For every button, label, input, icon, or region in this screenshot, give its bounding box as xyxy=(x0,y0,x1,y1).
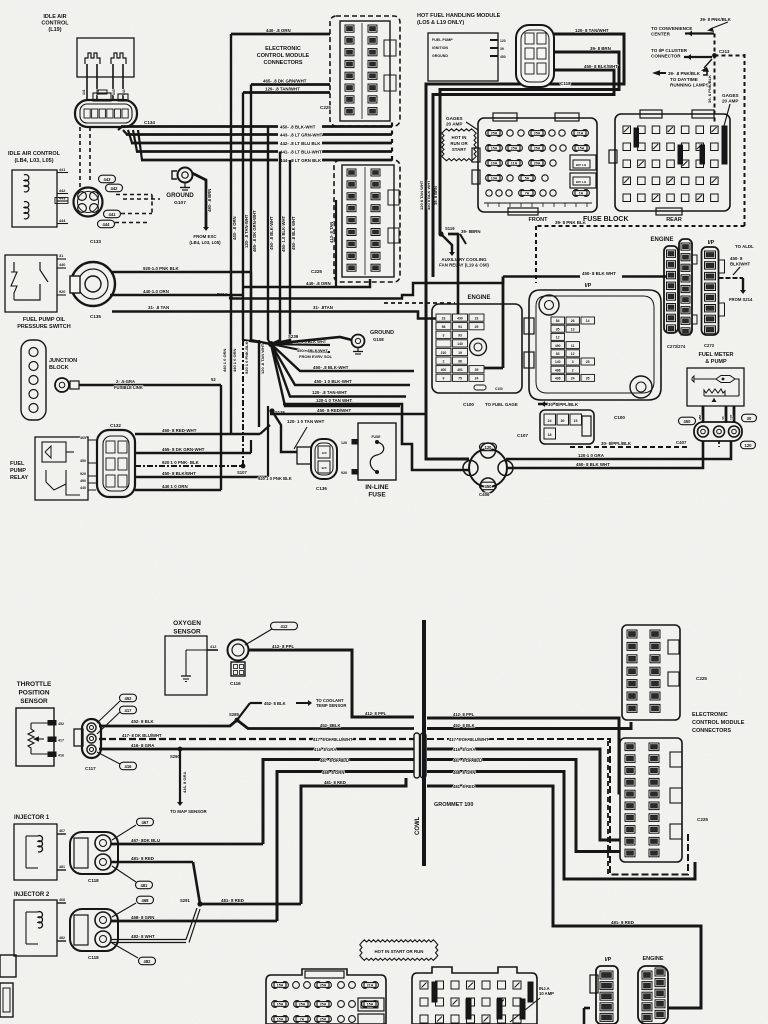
svg-text:(LO5 & L19 ONLY): (LO5 & L19 ONLY) xyxy=(417,20,464,26)
svg-text:39- 8BRN: 39- 8BRN xyxy=(461,229,481,234)
svg-text:417- 8 DK BLU/WHT: 417- 8 DK BLU/WHT xyxy=(122,733,162,738)
wire 452-.8 BLK right xyxy=(237,720,414,729)
svg-text:C132: C132 xyxy=(110,423,121,428)
ECM connector C225 second dashed boundary xyxy=(334,160,400,282)
svg-text:417: 417 xyxy=(125,708,133,713)
connector C135 xyxy=(71,262,115,306)
svg-text:440: 440 xyxy=(80,486,86,490)
svg-text:11A: 11A xyxy=(511,162,518,166)
wire 440-1.0 ORN vertical lower xyxy=(220,385,222,490)
connector ENGINE bottom xyxy=(638,966,668,1024)
svg-text:442: 442 xyxy=(59,189,65,193)
svg-text:START: START xyxy=(452,147,467,152)
svg-text:31- .8TAN: 31- .8TAN xyxy=(313,305,333,310)
wire 440-.8 ORN top run to C225 xyxy=(231,33,330,36)
svg-text:465- 8 DK GRN-WHT: 465- 8 DK GRN-WHT xyxy=(162,447,205,452)
wire 441- .8 LT BLU-WHT xyxy=(133,130,137,152)
pin tag 417 xyxy=(120,706,137,714)
svg-text:440 1 0 ORN: 440 1 0 ORN xyxy=(162,484,188,489)
svg-text:452- 8 BLK: 452- 8 BLK xyxy=(131,719,155,724)
splice B114 xyxy=(229,296,233,300)
svg-text:120: 120 xyxy=(500,39,506,43)
svg-text:C118: C118 xyxy=(560,81,571,86)
svg-text:84: 84 xyxy=(556,319,560,323)
svg-text:450- 8 BLK/WHT: 450- 8 BLK/WHT xyxy=(162,471,196,476)
pin tag 120 C406 xyxy=(480,443,497,451)
wire 120-1.0 TAN WHT upper xyxy=(283,404,469,470)
svg-text:450- 8 RED-WHT: 450- 8 RED-WHT xyxy=(162,428,197,433)
wire 413-.8 TAN xyxy=(335,200,337,287)
ring terminal on junction block xyxy=(55,378,69,392)
svg-text:39- 8 PNK/BLK: 39- 8 PNK/BLK xyxy=(700,17,732,22)
pin tag 412 O2 box xyxy=(207,649,218,651)
svg-text:GAGES: GAGES xyxy=(446,116,463,121)
wire 467-.8 DK BLU right xyxy=(427,760,620,852)
svg-text:GROMMET 100: GROMMET 100 xyxy=(434,802,473,808)
svg-text:30- 8/PPL/BLK: 30- 8/PPL/BLK xyxy=(548,402,579,407)
svg-text:S289: S289 xyxy=(229,712,239,717)
wire 120-1.0 GRA xyxy=(506,441,731,459)
svg-text:468- 8 GRN: 468- 8 GRN xyxy=(131,915,154,920)
svg-text:GROUND: GROUND xyxy=(432,54,448,58)
wire 465-.8 DK GRN-WHT relay xyxy=(135,452,251,454)
svg-text:450: 450 xyxy=(500,55,506,59)
svg-text:FUEL PUMP: FUEL PUMP xyxy=(432,38,453,42)
fuel pump relay box xyxy=(35,437,88,500)
splice S291 xyxy=(197,901,202,906)
svg-text:C225: C225 xyxy=(311,269,322,274)
svg-text:INJECTOR 1: INJECTOR 1 xyxy=(14,815,50,821)
connector C273/274 engine strip B xyxy=(679,239,692,335)
svg-text:120-1 0 GRA: 120-1 0 GRA xyxy=(578,453,605,458)
svg-text:140: 140 xyxy=(457,342,463,346)
fuse row 4 xyxy=(486,175,503,182)
wire 39-.8 BRN at S119 xyxy=(448,233,458,235)
svg-text:7A: 7A xyxy=(525,192,530,196)
oxygen sensor internal ground xyxy=(185,650,187,676)
svg-text:25A: 25A xyxy=(511,147,518,151)
svg-text:5A: 5A xyxy=(525,177,530,181)
svg-text:I/P: I/P xyxy=(605,957,612,963)
svg-text:440- .8 ORN: 440- .8 ORN xyxy=(306,281,331,286)
wire 468-.8 GRN right xyxy=(427,772,695,880)
connector C406 xyxy=(469,449,507,487)
svg-text:GAGES: GAGES xyxy=(722,93,739,98)
pins 441/442/443/444 on LB4 box xyxy=(57,172,68,174)
TPS pins xyxy=(31,722,48,724)
cowl line xyxy=(422,620,426,866)
connector C118 injector 2 xyxy=(70,909,118,951)
svg-text:11: 11 xyxy=(571,344,575,348)
svg-text:120- .8 TAN-WHT: 120- .8 TAN-WHT xyxy=(312,390,347,395)
svg-text:C118: C118 xyxy=(88,955,99,960)
svg-text:450: 450 xyxy=(485,484,493,489)
svg-text:3: 3 xyxy=(572,360,574,364)
svg-text:120: 120 xyxy=(485,445,493,450)
svg-text:SENSOR: SENSOR xyxy=(20,698,48,705)
svg-text:S119: S119 xyxy=(445,226,455,231)
svg-text:468- 8 GRN: 468- 8 GRN xyxy=(453,770,475,775)
svg-text:450- .8 BLK-WHT: 450- .8 BLK-WHT xyxy=(269,216,274,250)
svg-text:3: 3 xyxy=(443,334,445,338)
wire 920-1.0 PNK-BLK vertical lower xyxy=(242,340,244,466)
svg-text:417- 8 DK BLU/WHT: 417- 8 DK BLU/WHT xyxy=(449,737,489,742)
svg-text:TO FUEL GAGE: TO FUEL GAGE xyxy=(485,402,518,407)
svg-text:441: 441 xyxy=(82,89,86,95)
svg-text:452: 452 xyxy=(58,722,64,726)
svg-text:482- 8 WHT: 482- 8 WHT xyxy=(131,934,155,939)
svg-text:25A: 25A xyxy=(534,132,541,136)
svg-text:93: 93 xyxy=(458,325,462,329)
svg-text:15A: 15A xyxy=(277,1003,284,1007)
svg-text:450- 8 RED/WHT: 450- 8 RED/WHT xyxy=(317,408,351,413)
svg-text:120- .8 TAN/WHT: 120- .8 TAN/WHT xyxy=(265,87,300,92)
pin tag 442 xyxy=(106,184,123,192)
svg-text:ENGINE: ENGINE xyxy=(642,956,663,962)
wire 450-.8 BLK/WHT module xyxy=(433,70,614,277)
svg-text:25A: 25A xyxy=(299,1003,306,1007)
bottom fuse block front outline xyxy=(266,969,386,1024)
splice S239 xyxy=(268,341,274,347)
svg-text:THROTTLE: THROTTLE xyxy=(17,681,52,688)
svg-text:CENTER: CENTER xyxy=(651,32,671,37)
svg-text:FUSIBLE LINK: FUSIBLE LINK xyxy=(114,385,143,390)
I/P C100 circle top left xyxy=(539,295,559,315)
svg-text:120: 120 xyxy=(341,441,347,445)
wire 482-.8 WHT injector double xyxy=(111,939,186,941)
svg-text:452- 8 BLK: 452- 8 BLK xyxy=(264,701,286,706)
hot in start or run zigzag xyxy=(360,940,438,961)
wire 440-.8 ORN vertical xyxy=(230,34,232,298)
svg-text:441- .8 LT BLU-WHT: 441- .8 LT BLU-WHT xyxy=(280,149,322,154)
relay box B in fuse block xyxy=(570,173,596,188)
ECM connector C225 upper bottom half xyxy=(622,625,680,720)
svg-text:C273/274: C273/274 xyxy=(667,344,686,349)
wire 450-.8 RED/WHT upper xyxy=(270,413,426,416)
svg-text:12: 12 xyxy=(556,336,560,340)
svg-text:FUSE BLOCK: FUSE BLOCK xyxy=(583,216,629,223)
rear fuse rows xyxy=(623,126,631,134)
bottom rear fuse rows xyxy=(420,981,428,989)
wire C407 dashed stub xyxy=(718,441,720,447)
svg-text:496: 496 xyxy=(555,368,561,372)
relay pins 465/450/920/490/440 xyxy=(88,439,96,441)
connector I/P bottom xyxy=(596,966,618,1024)
svg-text:FAN RELAY (L19 & C60): FAN RELAY (L19 & C60) xyxy=(439,263,489,268)
svg-text:PRESSURE SWITCH: PRESSURE SWITCH xyxy=(17,324,71,330)
splice S135 xyxy=(269,408,274,413)
svg-text:481- 8 RED: 481- 8 RED xyxy=(221,898,244,903)
pin tag 412 oval xyxy=(271,622,298,630)
pin tag 450 C407 xyxy=(679,417,696,425)
svg-text:120: 120 xyxy=(745,443,753,448)
svg-text:19: 19 xyxy=(458,351,462,355)
svg-text:441: 441 xyxy=(109,212,117,217)
svg-text:31: 31 xyxy=(59,254,63,258)
svg-text:30: 30 xyxy=(747,416,752,421)
svg-text:440 1 0 ORN: 440 1 0 ORN xyxy=(232,349,237,372)
fuel meter pins xyxy=(702,406,705,423)
wire 481-.8 RED injector xyxy=(111,861,193,864)
fuse block bottom ticks xyxy=(484,202,592,204)
svg-text:39: 39 xyxy=(475,368,479,372)
svg-text:RELAY: RELAY xyxy=(10,475,28,481)
svg-text:PUMP: PUMP xyxy=(10,468,26,474)
svg-text:35: 35 xyxy=(556,327,560,331)
svg-text:FUSE: FUSE xyxy=(368,492,386,499)
engine C100 bottom ovals xyxy=(474,385,486,390)
fuel pump oil pressure switch box xyxy=(5,255,57,312)
wire 120-.8 TAN-WHT to C225 xyxy=(243,91,330,94)
svg-text:416- 8 GRA: 416- 8 GRA xyxy=(131,743,155,748)
ground G108 ring terminal xyxy=(271,337,352,344)
svg-text:920: 920 xyxy=(341,471,347,475)
svg-text:467: 467 xyxy=(59,829,65,833)
svg-text:417- 8 DK BLU/WHT: 417- 8 DK BLU/WHT xyxy=(313,737,353,742)
svg-text:AUXILIARY COOLING: AUXILIARY COOLING xyxy=(441,257,487,262)
svg-text:24: 24 xyxy=(548,419,552,423)
svg-text:18: 18 xyxy=(548,433,552,437)
wire 920-1.0 PNK BLK xyxy=(112,271,251,273)
svg-text:CONTROL MODULE: CONTROL MODULE xyxy=(257,53,310,59)
svg-text:440 1 0 ORN: 440 1 0 ORN xyxy=(222,349,227,372)
wire I/P to S214 xyxy=(719,277,744,279)
svg-text:ENGINE: ENGINE xyxy=(650,237,673,243)
svg-text:TO CONVENIENCE: TO CONVENIENCE xyxy=(651,26,692,31)
svg-text:452- 8 BLK: 452- 8 BLK xyxy=(453,723,475,728)
svg-text:467: 467 xyxy=(142,820,150,825)
svg-text:481- 8 RED: 481- 8 RED xyxy=(453,784,475,789)
pin tag 416 xyxy=(120,762,137,770)
wire 412-.8 PPL xyxy=(248,650,414,717)
svg-text:450- .8 BLK-WHT: 450- .8 BLK-WHT xyxy=(280,124,316,129)
svg-text:C225: C225 xyxy=(696,676,707,681)
svg-text:SENSOR: SENSOR xyxy=(173,629,201,636)
pin tag 30 C407 xyxy=(742,414,757,422)
engine C100 grid xyxy=(436,314,451,321)
svg-text:468: 468 xyxy=(59,898,65,902)
label 39-.8 PNK/BLK daytime xyxy=(652,70,660,76)
bottom fuse block rear outline xyxy=(412,967,537,1024)
svg-text:GROUND: GROUND xyxy=(370,330,394,336)
svg-text:C225: C225 xyxy=(697,817,708,822)
grommet 100 xyxy=(414,733,420,778)
svg-text:FUEL: FUEL xyxy=(10,461,25,467)
svg-text:443: 443 xyxy=(104,177,112,182)
svg-text:920: 920 xyxy=(59,290,65,294)
svg-text:(L19): (L19) xyxy=(48,27,61,33)
svg-text:C100: C100 xyxy=(495,387,503,391)
svg-text:440-1.0 ORN: 440-1.0 ORN xyxy=(143,289,169,294)
svg-text:CONTROL: CONTROL xyxy=(41,21,69,27)
pin tag 450 C406 xyxy=(480,482,497,490)
wire to I/P cluster connector arrow xyxy=(684,56,712,58)
pin tag 482 oval xyxy=(139,957,156,965)
wire 450-.8 BLK-WHT vertical xyxy=(267,127,269,341)
svg-text:120 .8 TAN WHT: 120 .8 TAN WHT xyxy=(260,343,265,374)
svg-text:920 1 0 PNK BLK: 920 1 0 PNK BLK xyxy=(258,476,292,481)
connector C118 module xyxy=(516,25,554,87)
svg-text:412- 8 PPL: 412- 8 PPL xyxy=(365,711,387,716)
svg-text:481: 481 xyxy=(59,865,65,869)
ECM connector C225 lower body xyxy=(620,738,682,862)
svg-text:10 AMP: 10 AMP xyxy=(539,991,554,996)
svg-text:HOT FUEL HANDLING MODULE: HOT FUEL HANDLING MODULE xyxy=(417,13,501,19)
svg-text:IDLE AIR: IDLE AIR xyxy=(43,14,66,20)
svg-text:HOT IN: HOT IN xyxy=(452,135,467,140)
wire 440-1.0 ORN xyxy=(110,294,243,296)
svg-text:(LB4, L03, L05): (LB4, L03, L05) xyxy=(189,240,221,245)
pin tag 444 xyxy=(98,220,115,228)
pin tag 443 xyxy=(99,175,116,183)
wire 417-.8 DK BLU/WHT dashed xyxy=(99,738,414,740)
svg-text:481- 8 RED: 481- 8 RED xyxy=(131,856,154,861)
svg-text:416- 8 GRA: 416- 8 GRA xyxy=(182,772,187,793)
pin tag 120 C407 xyxy=(741,441,756,449)
svg-text:OXYGEN: OXYGEN xyxy=(173,620,201,627)
wire to convenience center arrow xyxy=(685,32,714,34)
svg-text:C107: C107 xyxy=(517,433,528,438)
svg-text:467- 8 DK BLU: 467- 8 DK BLU xyxy=(453,758,482,763)
svg-text:450- .8 BLK WHT: 450- .8 BLK WHT xyxy=(291,216,296,250)
svg-text:C213: C213 xyxy=(719,49,730,54)
bottom front fuses row 2 xyxy=(272,1001,289,1008)
svg-text:440: 440 xyxy=(59,263,65,267)
svg-text:412- 8 PPL: 412- 8 PPL xyxy=(272,644,295,649)
svg-text:POSITION: POSITION xyxy=(18,690,49,697)
arrows from S119 to aux cooling xyxy=(441,234,452,250)
wire 120-.8 TAN/WHT module xyxy=(426,34,624,459)
svg-text:450: 450 xyxy=(80,459,86,463)
svg-text:465- .8 DK GRN-WHT: 465- .8 DK GRN-WHT xyxy=(252,210,257,252)
wire vertical into engine connector xyxy=(502,277,505,369)
svg-text:450- 8 BLK/WHT: 450- 8 BLK/WHT xyxy=(584,64,618,69)
svg-text:24: 24 xyxy=(475,377,479,381)
svg-text:CONNECTORS: CONNECTORS xyxy=(692,728,731,734)
wire 481-.8 RED right xyxy=(427,786,701,1008)
svg-text:98: 98 xyxy=(442,325,446,329)
svg-text:15A: 15A xyxy=(277,1018,284,1022)
svg-text:444: 444 xyxy=(59,219,66,223)
oxygen sensor connector C116 xyxy=(228,640,249,661)
svg-text:2- .5-GRA: 2- .5-GRA xyxy=(116,379,135,384)
svg-text:9: 9 xyxy=(443,377,445,381)
svg-text:25A: 25A xyxy=(491,132,498,136)
svg-text:CONNECTOR: CONNECTOR xyxy=(651,54,681,59)
bottom front fuses row 3 xyxy=(272,1016,289,1023)
svg-text:482: 482 xyxy=(59,936,65,940)
svg-text:491: 491 xyxy=(457,368,463,372)
svg-text:IDLE AIR CONTROL: IDLE AIR CONTROL xyxy=(8,151,61,157)
svg-text:490: 490 xyxy=(80,479,86,483)
pin tag 468 oval xyxy=(137,896,154,904)
wire 120-.8 TAN-WHT fan xyxy=(271,344,406,397)
svg-text:14: 14 xyxy=(586,319,590,323)
wire 440-1.0 ORN from B114 xyxy=(231,277,503,299)
wire 450-1.0 BLK-WHT fan xyxy=(271,344,410,385)
coil L4 xyxy=(24,202,29,219)
svg-text:450- 1 0 BLK-WHT: 450- 1 0 BLK-WHT xyxy=(314,379,352,384)
svg-text:BDY 1-B: BDY 1-B xyxy=(576,180,586,184)
svg-text:C118: C118 xyxy=(88,878,99,883)
ECM connector C225 upper dashed boundary xyxy=(330,16,400,126)
svg-text:416: 416 xyxy=(125,764,133,769)
wire 440-1.0 ORN vertical lower 2 xyxy=(230,298,232,434)
svg-text:490: 490 xyxy=(555,344,561,348)
wire 450-.8 RED-WHT xyxy=(135,433,260,435)
svg-text:TO MAP SENSOR: TO MAP SENSOR xyxy=(170,809,208,814)
svg-text:443: 443 xyxy=(112,89,116,95)
splice S289 xyxy=(235,718,240,723)
wire 467-.8 DK BLU injector xyxy=(111,843,263,846)
wire 450-1.0 BLK-WHT vertical xyxy=(279,152,281,342)
svg-text:ELECTRONIC: ELECTRONIC xyxy=(265,46,301,52)
bottom rear black bars xyxy=(432,982,437,1002)
svg-text:G108: G108 xyxy=(373,337,384,342)
svg-text:I/P: I/P xyxy=(585,283,592,289)
connector C136 xyxy=(311,439,337,479)
label 120-1.0 TAN WHT pointer xyxy=(294,427,307,449)
svg-text:468: 468 xyxy=(142,898,150,903)
svg-text:21A: 21A xyxy=(577,132,584,136)
svg-text:10A: 10A xyxy=(491,162,498,166)
wire 442- .8 LT BLU BLK xyxy=(128,130,132,143)
svg-text:ENGINE: ENGINE xyxy=(467,295,490,301)
svg-text:413- 8 TAN: 413- 8 TAN xyxy=(329,222,334,243)
wire 440-.8 ORN into C225 xyxy=(243,279,370,287)
fuse block rear outline xyxy=(615,114,730,211)
wire 450-.8 BLK WHT to C407 xyxy=(506,441,703,468)
fuse row 5 xyxy=(486,190,492,196)
svg-text:23: 23 xyxy=(475,316,479,320)
svg-text:19: 19 xyxy=(574,419,578,423)
wire 120-.8 TAN WHT vertical lower xyxy=(258,340,260,427)
svg-text:IN-LINE: IN-LINE xyxy=(365,484,389,491)
svg-text:24: 24 xyxy=(571,377,575,381)
connector C118 injector 1 xyxy=(70,832,118,874)
connector C107 xyxy=(540,410,594,444)
connector C132 xyxy=(97,430,135,497)
injector 2 box xyxy=(14,900,57,956)
throttle position sensor box xyxy=(16,708,54,766)
wire 468-.8 GRN to grommet xyxy=(277,772,414,922)
svg-text:30- 8/PPL/BLK: 30- 8/PPL/BLK xyxy=(601,441,632,446)
svg-text:12: 12 xyxy=(571,352,575,356)
svg-text:21A: 21A xyxy=(367,984,374,988)
svg-text:BLOCK: BLOCK xyxy=(49,365,69,371)
svg-text:120- 8 TAN/WHT: 120- 8 TAN/WHT xyxy=(575,28,609,33)
svg-text:COWL: COWL xyxy=(415,816,421,835)
wire 120-1.0 TAN WHT fan xyxy=(271,344,400,406)
svg-text:S290: S290 xyxy=(170,754,180,759)
wire dashed down to I/P xyxy=(535,226,537,283)
wire 450- .8 BLK-WHT xyxy=(118,127,122,131)
svg-text:FUEL METER: FUEL METER xyxy=(698,352,733,358)
svg-text:25: 25 xyxy=(475,325,479,329)
in-line fuse box xyxy=(358,423,396,480)
svg-text:31- .8 TAN: 31- .8 TAN xyxy=(148,305,169,310)
ECM connector C225 second body xyxy=(342,165,394,277)
splice C213 xyxy=(712,53,717,58)
svg-text:450 8 BLK WHT: 450 8 BLK WHT xyxy=(426,180,431,210)
wire 440-1.0 ORN relay xyxy=(135,489,221,491)
coil L1 xyxy=(85,53,100,64)
I/P C100 grid xyxy=(551,317,565,324)
svg-text:412: 412 xyxy=(210,645,216,649)
svg-text:416: 416 xyxy=(58,754,64,758)
svg-text:FROM S214: FROM S214 xyxy=(729,297,753,302)
svg-text:450- .8BLK/WHT: 450- .8BLK/WHT xyxy=(297,348,328,353)
